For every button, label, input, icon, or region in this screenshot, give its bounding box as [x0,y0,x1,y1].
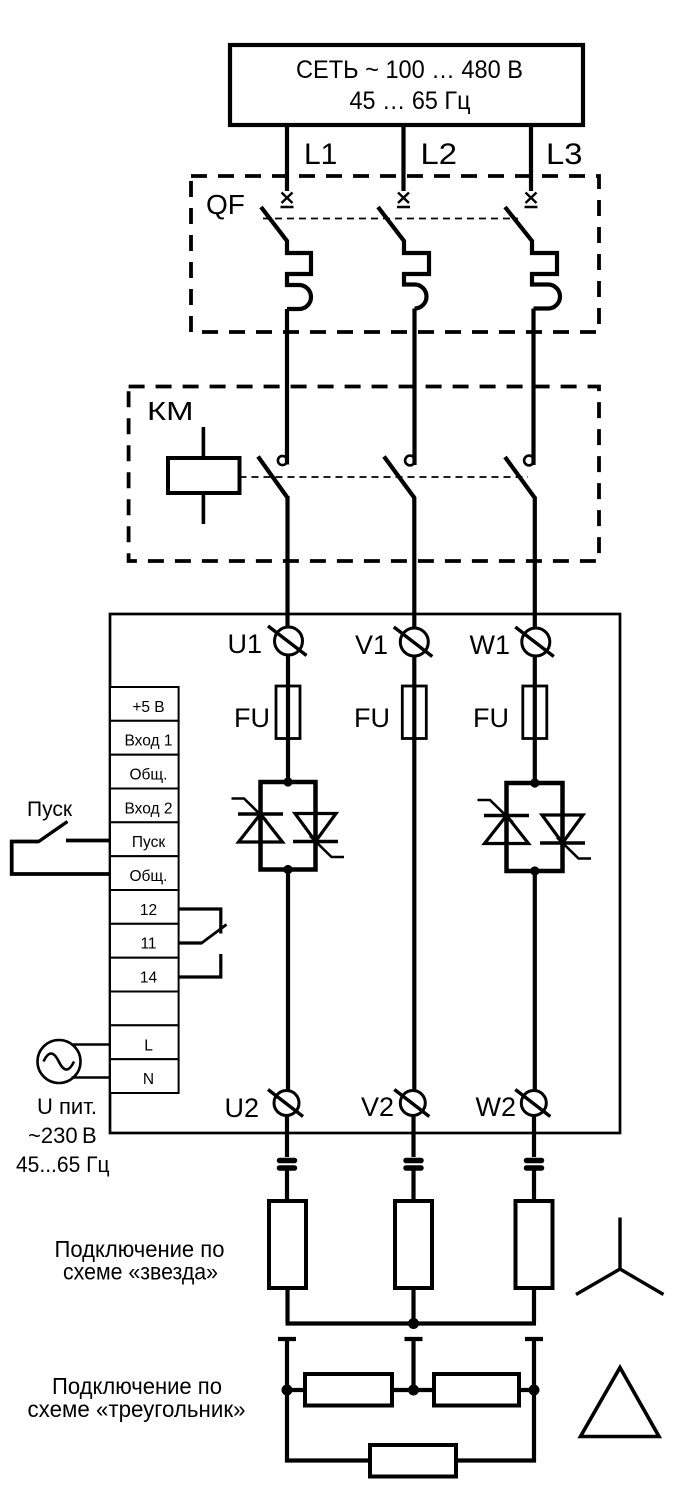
terminal W2 circle [521,1091,546,1116]
VS1 top junction dot [283,777,292,786]
VS1 right thyristor cathode bar [293,840,338,843]
wire break to winding V (star) [411,1168,415,1201]
wire L1 from mains box [285,125,289,191]
wire winding U to star point [285,1288,289,1322]
wire L2 from mains box [401,125,405,191]
wire V1 to V2 (straight phase) [412,656,416,1090]
svg-text:+5 В: +5 В [132,699,164,716]
wire break to winding U (star) [285,1168,289,1201]
AC supply source circle [38,1040,81,1083]
relay wire from terminal 12 [179,909,221,934]
terminal x-mark L2 [397,193,410,208]
svg-text:Пуск: Пуск [132,834,165,851]
svg-text:~230 В: ~230 В [28,1123,97,1148]
break mark phase V [406,1161,421,1169]
svg-text:СЕТЬ ~ 100 … 480 В: СЕТЬ ~ 100 … 480 В [296,56,523,84]
QF pole 1 (breaker contact + release) [261,207,311,309]
VS2 left thyristor gate [478,800,513,822]
relay changeover blade 11-12 [201,925,227,944]
delta tap stub W with cap [525,1339,543,1390]
QF pole 2 (breaker contact + release) [378,207,429,309]
VS1 right thyristor triangle [295,814,336,842]
wire W2 to break mark [532,1116,536,1158]
VS1 right thyristor gate [310,836,344,857]
KM contact 2 blade [384,457,415,499]
wire QF pole2 to KM contact [412,309,416,466]
wire W1 to fuse FU3 [533,656,537,686]
svg-text:V1: V1 [355,630,388,660]
svg-text:11: 11 [140,936,156,953]
wire QF pole3 to KM contact [531,309,535,466]
terminal W2 slash [515,1090,550,1117]
wire U1 to fuse FU1 [286,655,290,686]
fuse FU2 body [402,686,426,739]
terminal W1 circle [522,628,550,656]
KM mechanical linkage dashed line [240,476,529,478]
relay wire from terminal 11 [179,941,202,944]
svg-text:14: 14 [140,970,158,987]
AC source wire to L [73,1043,110,1046]
KM coil lead top [202,427,206,458]
VS2 left thyristor triangle [485,816,529,844]
VS1 left thyristor gate [232,799,267,821]
start button wire to Пуск terminal [66,839,110,843]
wire U2 to break mark [285,1116,289,1158]
svg-text:L2: L2 [421,138,458,171]
terminal x-mark L1 [281,193,294,208]
wire L3 from mains box [529,125,533,191]
AC source sine wave [44,1054,75,1070]
wire KM contact2 to main box [412,497,416,629]
wire winding V to star point [411,1288,415,1322]
fuse FU1 wire through [286,686,290,739]
control terminal strip cells [110,687,179,1093]
svg-text:12: 12 [140,902,157,919]
delta tap stub V with cap [405,1339,423,1390]
delta bottom loop wire [287,1390,534,1461]
wire QF pole1 to KM contact [285,309,289,465]
break mark phase U [280,1161,295,1169]
motor winding 2 (delta) [434,1374,519,1406]
svg-text:L1: L1 [304,138,337,171]
star point junction dot [408,1318,419,1329]
svg-text:схеме «звезда»: схеме «звезда» [63,1259,218,1285]
relay wire from terminal 14 [179,954,221,977]
fuse FU3 body [523,686,547,739]
soft starter main enclosure box [110,614,620,1133]
star point bus wire [286,1321,537,1325]
svg-text:45...65 Гц: 45...65 Гц [16,1152,110,1177]
VS2 right thyristor gate [557,838,591,859]
VS1 left thyristor cathode bar [238,812,283,815]
svg-text:Вход 2: Вход 2 [125,800,173,817]
AC source wire to N [72,1076,111,1079]
terminal x-mark L3 [525,193,538,208]
terminal U1 circle [275,627,303,655]
mains supply box СЕТЬ [230,45,583,125]
VS1 bottom junction dot [283,865,292,874]
wire VS1 to terminal U2 [286,870,290,1091]
wire KM contact1 to main box [285,496,289,628]
star symbol [576,1218,664,1295]
KM contact 3 pivot circle [524,456,534,466]
KM contact 1 blade [258,457,287,498]
KM coil [168,458,240,493]
wire V2 to break mark [411,1116,415,1158]
wire VS2 to terminal W2 [533,871,537,1090]
svg-text:Общ.: Общ. [130,767,168,784]
svg-text:схеме «треугольник»: схеме «треугольник» [28,1396,246,1422]
terminal U2 slash [268,1090,303,1117]
KM contact 3 blade [505,457,535,498]
contactor KM dashed enclosure [129,387,599,562]
VS2 right thyristor cathode bar [540,841,585,844]
svg-text:Пуск: Пуск [27,798,73,821]
VS2 left thyristor cathode bar [484,814,529,817]
svg-text:L: L [144,1037,153,1054]
break mark phase W [527,1161,542,1169]
thyristor block VS1 frame [261,782,316,870]
delta junction dot left [282,1385,293,1396]
svg-text:Общ.: Общ. [130,868,168,885]
fuse FU3 wire through [533,686,537,739]
wire FU3 to thyristor block VS2 [533,739,537,784]
thyristor block VS2 frame [507,783,563,871]
wire winding W to star point [532,1288,536,1322]
svg-text:FU: FU [234,703,270,733]
svg-text:U пит.: U пит. [37,1094,97,1119]
terminal W1 slash [515,627,554,657]
wire KM contact3 to main box [533,497,537,630]
delta junction dot middle [408,1385,419,1396]
terminal V2 circle [400,1091,425,1116]
VS2 top junction dot [530,778,539,787]
svg-text:FU: FU [473,703,509,733]
delta tap stub U with cap [278,1339,296,1390]
svg-text:FU: FU [354,703,390,733]
KM contact 2 pivot circle [405,456,415,466]
QF pole 3 (breaker contact + release) [505,207,560,309]
terminal V1 slash [394,627,433,657]
start button left lead [12,842,110,875]
start button blade [38,822,68,843]
terminal U2 circle [274,1091,299,1116]
wire FU1 to thyristor block VS1 [286,739,290,783]
terminal V2 slash [394,1090,429,1117]
terminal U1 slash [268,626,307,656]
svg-text:N: N [143,1071,154,1088]
VS2 bottom junction dot [530,866,539,875]
motor winding W (star) [516,1201,553,1288]
VS1 left thyristor triangle [239,814,283,842]
motor winding V (star) [395,1201,432,1288]
svg-text:КМ: КМ [147,396,194,426]
fuse FU1 body [276,686,300,739]
delta symbol triangle [581,1368,660,1437]
svg-text:QF: QF [206,189,245,220]
svg-text:U1: U1 [227,629,262,659]
svg-text:W1: W1 [470,630,511,660]
svg-text:U2: U2 [224,1093,259,1123]
KM contact 1 pivot circle [278,456,287,465]
delta junction dot right [529,1385,540,1396]
circuit breaker QF dashed enclosure [191,176,599,332]
fuse FU2 wire through [412,686,416,739]
svg-text:Вход 1: Вход 1 [125,733,173,750]
QF mechanical linkage dashed line [263,218,518,220]
delta top wire [287,1388,534,1392]
motor winding 3 (delta) [370,1445,456,1477]
motor winding U (star) [269,1201,306,1288]
svg-text:45 … 65 Гц: 45 … 65 Гц [350,87,471,115]
svg-text:W2: W2 [476,1092,517,1122]
terminal V1 circle [400,628,428,656]
svg-text:L3: L3 [546,138,583,171]
VS2 right thyristor triangle [542,815,583,843]
motor winding 1 (delta) [305,1374,392,1406]
KM coil lead bottom [202,493,206,524]
svg-text:V2: V2 [361,1092,394,1122]
wire break to winding W (star) [532,1168,536,1201]
